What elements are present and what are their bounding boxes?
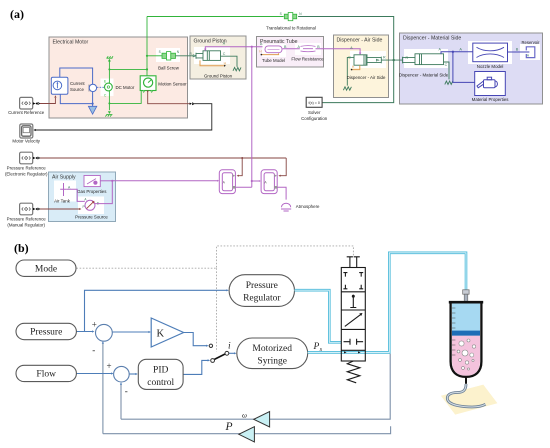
svg-text:-: - (92, 345, 95, 355)
svg-text:Pressure Reference: Pressure Reference (7, 217, 47, 222)
svg-text:C: C (348, 56, 351, 60)
svg-text:Pressure Source: Pressure Source (75, 215, 108, 220)
svg-text:+: + (107, 361, 112, 371)
svg-text:(Electronic Regulator): (Electronic Regulator) (5, 172, 48, 177)
svg-text:(b): (b) (14, 241, 29, 255)
svg-text:Mode: Mode (35, 264, 57, 274)
svg-text:P: P (313, 342, 320, 352)
svg-text:K: K (157, 329, 165, 340)
svg-text:Current Reference: Current Reference (8, 110, 45, 115)
svg-text:P: P (82, 205, 84, 209)
svg-text:PID: PID (153, 365, 168, 375)
svg-text:control: control (147, 378, 174, 388)
svg-text:Electrical Motor: Electrical Motor (53, 40, 89, 46)
svg-text:Dispencer - Material Side: Dispencer - Material Side (399, 72, 449, 77)
svg-text:Translational to Rotational: Translational to Rotational (266, 26, 316, 31)
svg-text:Air Supply: Air Supply (52, 175, 76, 181)
svg-text:Material Properties: Material Properties (472, 97, 510, 102)
svg-text:f(x) = 0: f(x) = 0 (309, 101, 320, 105)
svg-text:Air Tank: Air Tank (54, 199, 71, 204)
svg-text:ω: ω (242, 412, 247, 420)
svg-text:Motion Sensor: Motion Sensor (158, 81, 187, 86)
svg-text:-: - (125, 386, 128, 396)
svg-text:S: S (159, 50, 161, 54)
svg-text:Ground Piston: Ground Piston (204, 73, 233, 78)
svg-text:S: S (280, 12, 282, 16)
svg-text:(Manual Regulator): (Manual Regulator) (7, 223, 45, 228)
svg-text:Ball Screw: Ball Screw (158, 65, 180, 70)
svg-text:Regulator: Regulator (243, 293, 281, 303)
svg-text:Configuration: Configuration (301, 116, 328, 121)
svg-text:C: C (223, 52, 226, 56)
svg-text:Atmosphere: Atmosphere (296, 204, 320, 209)
svg-text:P: P (225, 421, 233, 433)
svg-text:(a): (a) (10, 7, 24, 21)
svg-text:Pressure: Pressure (30, 328, 62, 338)
svg-text:Nozzle Model: Nozzle Model (477, 64, 504, 69)
svg-text:Reservoir: Reservoir (522, 40, 541, 45)
svg-text:Pressure Reference: Pressure Reference (7, 166, 47, 171)
svg-text:Motorized: Motorized (252, 344, 292, 354)
svg-text:i: i (228, 341, 231, 351)
svg-text:Current: Current (70, 81, 85, 86)
svg-text:Source: Source (70, 87, 84, 92)
svg-text:Dispencer - Air Side: Dispencer - Air Side (347, 75, 386, 80)
svg-text:Flow: Flow (36, 370, 56, 380)
svg-text:Solver: Solver (308, 110, 321, 115)
svg-text:Ground Piston: Ground Piston (194, 39, 227, 45)
svg-text:Dispencer - Material Side: Dispencer - Material Side (403, 36, 461, 42)
svg-text:B: B (516, 47, 519, 51)
svg-text:Pressure: Pressure (246, 281, 278, 291)
svg-text:Syringe: Syringe (257, 357, 287, 367)
svg-text:Gas Properties: Gas Properties (77, 189, 107, 194)
svg-text:Flow Resistance: Flow Resistance (291, 56, 324, 61)
svg-text:DC Motor: DC Motor (116, 85, 135, 90)
svg-text:R: R (383, 56, 386, 60)
svg-text:+: + (92, 319, 97, 329)
svg-text:Dispencer - Air Side: Dispencer - Air Side (337, 38, 383, 44)
svg-text:A: A (459, 47, 462, 51)
svg-text:Motor Velocity: Motor Velocity (12, 138, 40, 143)
svg-text:R: R (406, 56, 409, 60)
svg-text:C: C (445, 63, 448, 67)
svg-text:Tube Model: Tube Model (262, 58, 285, 63)
